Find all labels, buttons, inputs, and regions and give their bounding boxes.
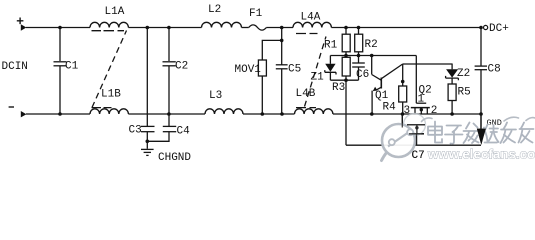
svg-text:C3: C3 [129, 125, 142, 137]
svg-text:www.elecfans.com: www.elecfans.com [427, 147, 535, 162]
svg-text:1: 1 [418, 94, 425, 106]
svg-text:L1A: L1A [105, 6, 125, 18]
svg-text:R3: R3 [332, 82, 345, 94]
svg-text:C1: C1 [65, 61, 79, 73]
svg-text:C8: C8 [488, 64, 501, 76]
svg-text:Z1: Z1 [311, 72, 325, 84]
svg-text:CHGND: CHGND [158, 152, 191, 164]
svg-text:C5: C5 [288, 64, 301, 76]
svg-text:L3: L3 [209, 90, 222, 102]
svg-text:L1B: L1B [101, 89, 121, 101]
svg-text:L4B: L4B [296, 88, 316, 100]
svg-text:C6: C6 [356, 69, 369, 81]
svg-text:L2: L2 [208, 4, 221, 16]
svg-text:R2: R2 [365, 39, 378, 51]
svg-text:2: 2 [431, 105, 438, 117]
svg-text:Q1: Q1 [375, 90, 389, 102]
svg-text:C4: C4 [177, 126, 191, 138]
svg-text:R5: R5 [458, 87, 471, 99]
svg-text:Z2: Z2 [457, 68, 470, 80]
svg-text:DC+: DC+ [489, 23, 509, 35]
svg-text:MOV1: MOV1 [235, 64, 262, 76]
svg-text:F1: F1 [249, 8, 263, 20]
svg-text:L4A: L4A [301, 12, 321, 24]
svg-text:DCIN: DCIN [2, 61, 28, 73]
svg-text:C7: C7 [412, 150, 425, 162]
svg-text:R1: R1 [324, 40, 338, 52]
svg-text:C2: C2 [175, 61, 188, 73]
svg-text:R4: R4 [383, 102, 397, 114]
